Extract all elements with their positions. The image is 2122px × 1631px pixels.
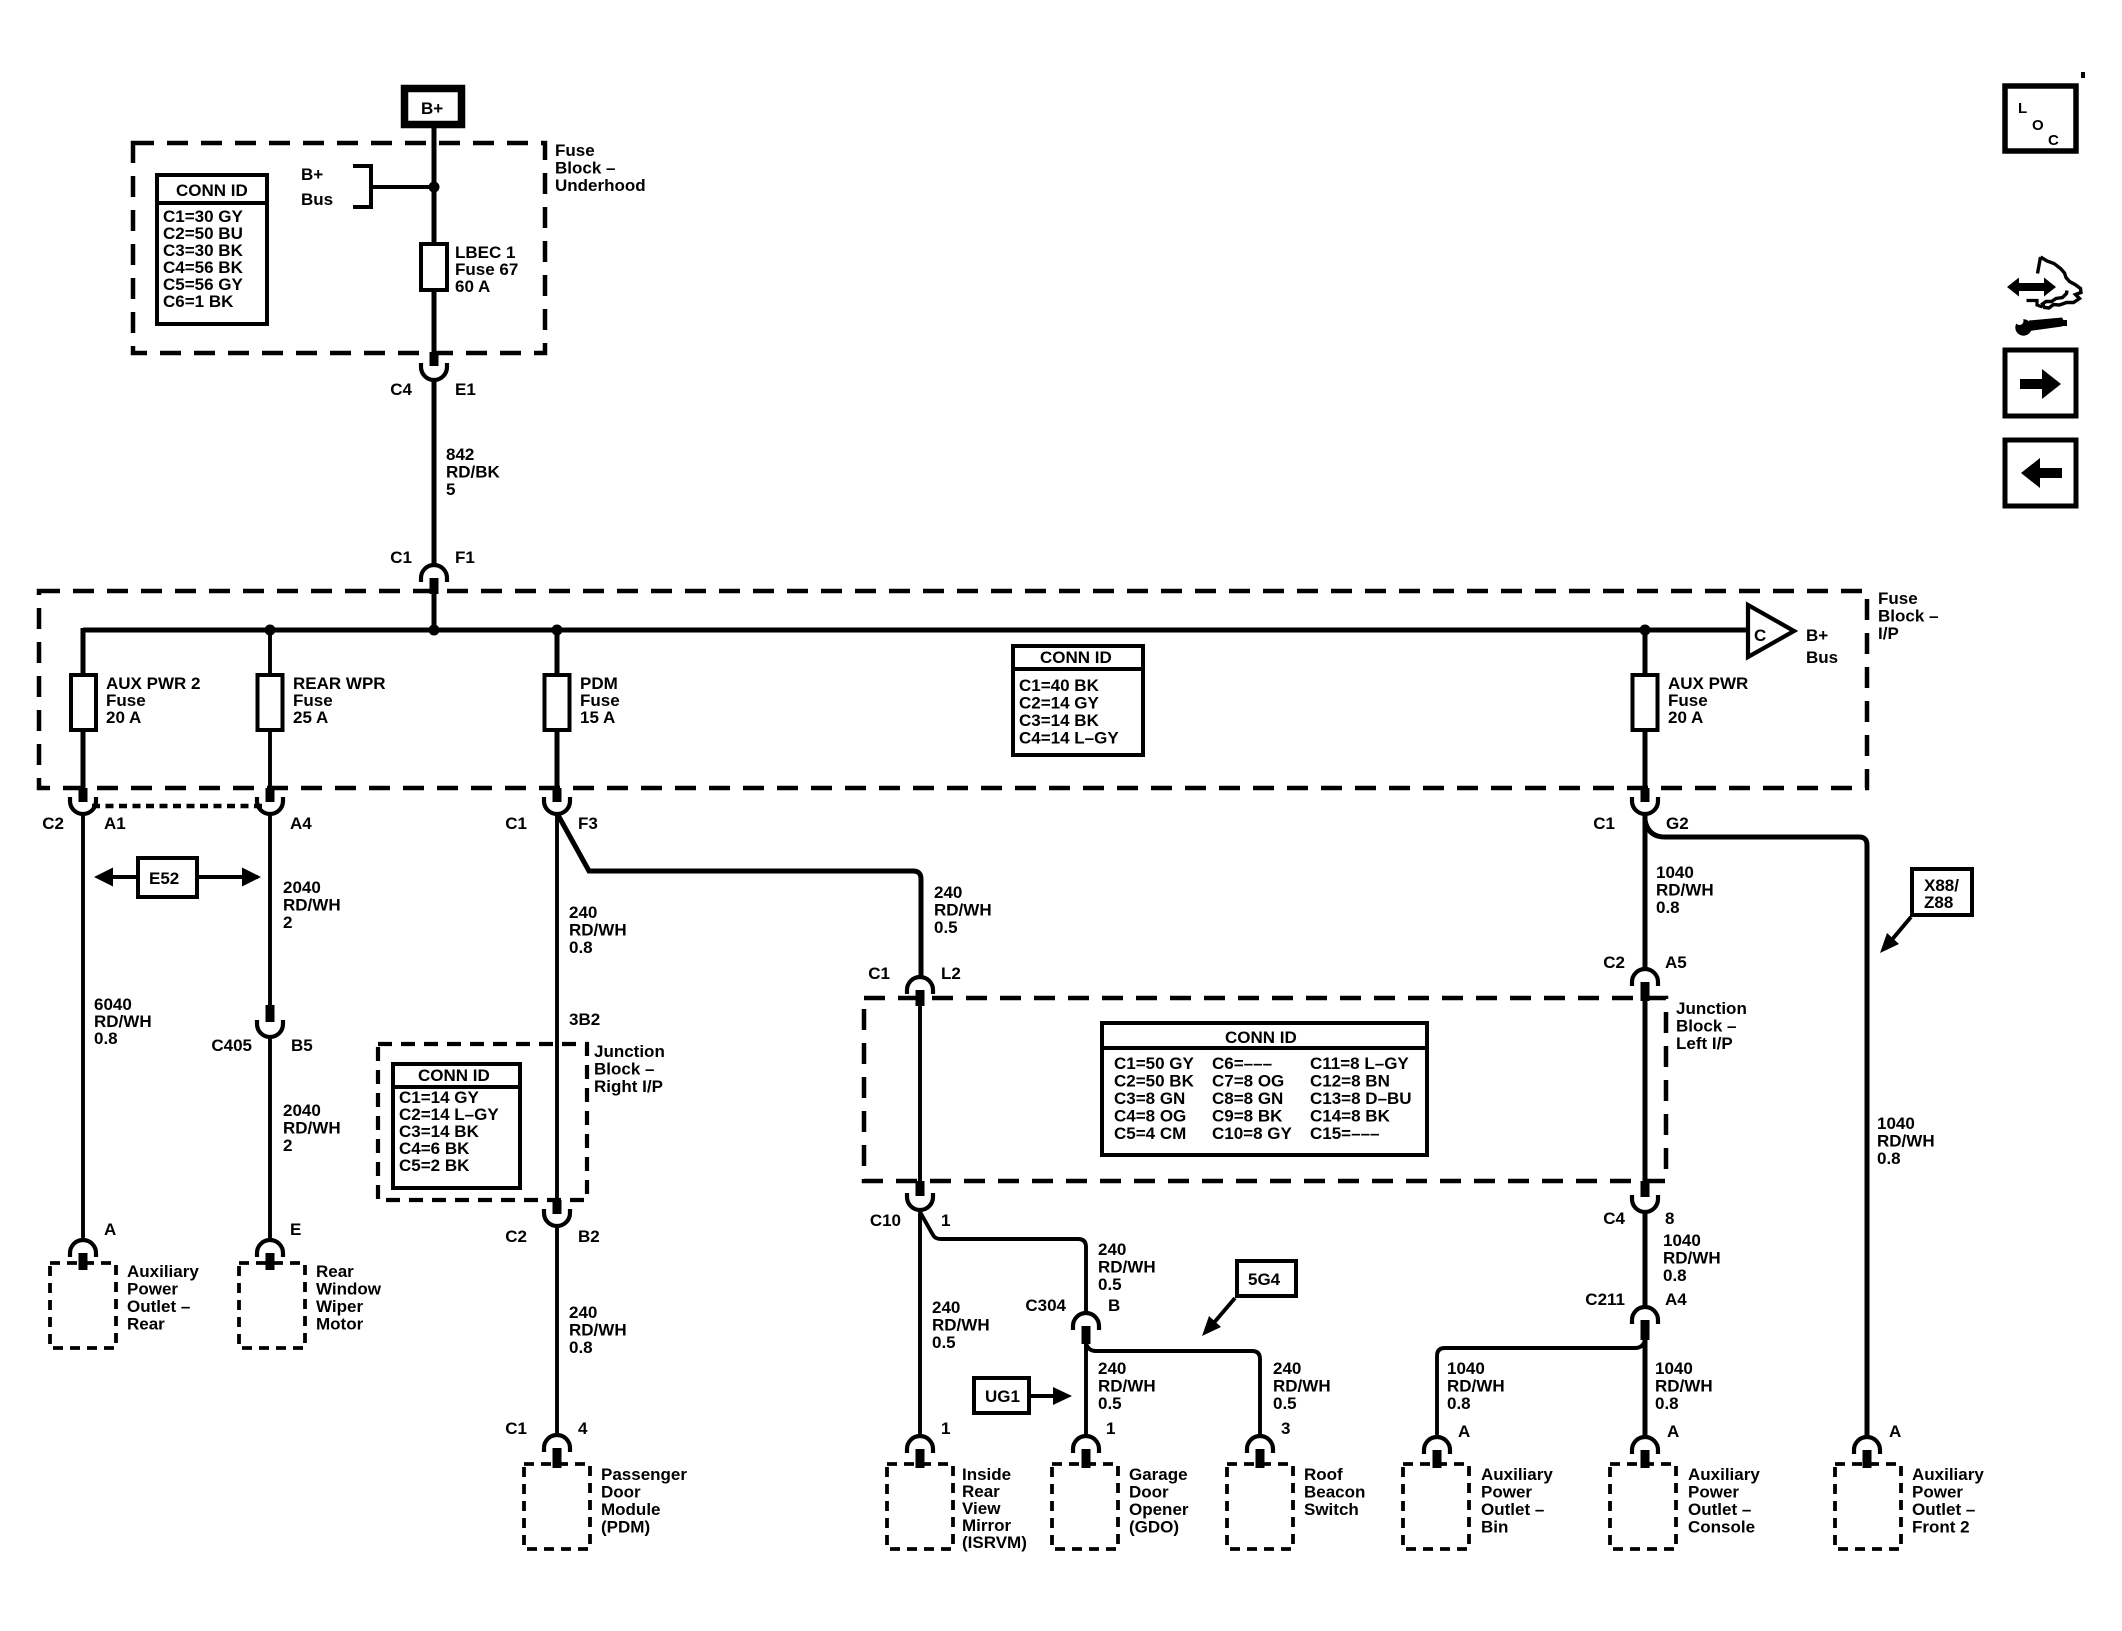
connector A (Console outlet) xyxy=(1632,1422,1679,1468)
wire 240 RD/WH 0.5 (to ISRVM) xyxy=(918,1210,922,1436)
svg-text:I/P: I/P xyxy=(1878,624,1899,643)
svg-text:0.8: 0.8 xyxy=(569,1338,593,1357)
svg-text:0.5: 0.5 xyxy=(1273,1394,1297,1413)
svg-text:F1: F1 xyxy=(455,548,475,567)
svg-text:Door: Door xyxy=(601,1483,641,1502)
component Garage Door Opener (GDO) xyxy=(1052,1464,1189,1549)
connector C1/F3 xyxy=(505,788,598,833)
svg-text:0.8: 0.8 xyxy=(94,1029,118,1048)
node C B+ Bus arrow xyxy=(1748,605,1838,667)
connector A (Front 2 outlet) xyxy=(1854,1422,1901,1468)
svg-text:RD/WH: RD/WH xyxy=(1098,1258,1156,1277)
CONN ID table (underhood) xyxy=(157,175,267,324)
svg-text:C15=–––: C15=––– xyxy=(1310,1124,1379,1143)
svg-text:CONN ID: CONN ID xyxy=(176,181,248,200)
svg-text:E1: E1 xyxy=(455,380,476,399)
svg-text:RD/WH: RD/WH xyxy=(1877,1132,1935,1151)
svg-text:Bin: Bin xyxy=(1481,1518,1508,1537)
connector C2/B2 xyxy=(505,1200,599,1246)
svg-text:240: 240 xyxy=(1273,1359,1301,1378)
svg-text:L: L xyxy=(2018,100,2027,117)
svg-text:C: C xyxy=(2048,132,2059,149)
svg-text:C10=8 GY: C10=8 GY xyxy=(1212,1124,1293,1143)
svg-text:Rear: Rear xyxy=(316,1262,354,1281)
svg-text:RD/WH: RD/WH xyxy=(1098,1377,1156,1396)
connector C304/B xyxy=(1025,1296,1120,1344)
icon arrow left box xyxy=(2005,440,2076,506)
svg-text:Front 2: Front 2 xyxy=(1912,1518,1970,1537)
svg-text:Door: Door xyxy=(1129,1483,1169,1502)
svg-text:Passenger: Passenger xyxy=(601,1465,687,1484)
svg-text:0.8: 0.8 xyxy=(1663,1266,1687,1285)
svg-text:(PDM): (PDM) xyxy=(601,1518,650,1537)
svg-text:Auxiliary: Auxiliary xyxy=(1481,1465,1553,1484)
connector C1/4 (PDM) xyxy=(505,1419,588,1468)
svg-text:(ISRVM): (ISRVM) xyxy=(962,1533,1027,1552)
svg-text:2: 2 xyxy=(283,1136,292,1155)
component Passenger Door Module (PDM) xyxy=(524,1464,687,1549)
connector C4/E1 xyxy=(390,352,476,399)
wire B+ bus (horizontal) xyxy=(83,628,1748,633)
svg-text:C1: C1 xyxy=(868,964,890,983)
connector 1 (GDO) xyxy=(1073,1419,1115,1468)
svg-text:C2: C2 xyxy=(42,814,64,833)
svg-text:240: 240 xyxy=(932,1298,960,1317)
svg-text:Motor: Motor xyxy=(316,1315,364,1334)
svg-text:Console: Console xyxy=(1688,1518,1755,1537)
svg-text:4: 4 xyxy=(578,1419,588,1438)
svg-text:0.5: 0.5 xyxy=(1098,1394,1122,1413)
svg-text:Opener: Opener xyxy=(1129,1500,1189,1519)
svg-text:C1=40 BK: C1=40 BK xyxy=(1019,676,1100,695)
svg-text:RD/BK: RD/BK xyxy=(446,463,501,482)
svg-text:8: 8 xyxy=(1665,1209,1674,1228)
wire B+ to fuse block underhood xyxy=(432,128,437,354)
svg-text:15 A: 15 A xyxy=(580,708,615,727)
connector C2/A1 xyxy=(42,788,125,833)
svg-text:Left I/P: Left I/P xyxy=(1676,1034,1733,1053)
component Auxiliary Power Outlet Front 2 xyxy=(1835,1464,1984,1549)
svg-text:A: A xyxy=(1458,1422,1470,1441)
wire 2040 RD/WH 2 (upper) xyxy=(268,813,272,1006)
svg-text:C405: C405 xyxy=(211,1036,252,1055)
svg-text:Outlet –: Outlet – xyxy=(127,1297,190,1316)
svg-text:Switch: Switch xyxy=(1304,1500,1359,1519)
svg-text:RD/WH: RD/WH xyxy=(934,901,992,920)
svg-text:0.8: 0.8 xyxy=(569,938,593,957)
svg-text:240: 240 xyxy=(569,903,597,922)
wire 6040 RD/WH 0.8 xyxy=(81,813,85,1241)
svg-text:Outlet –: Outlet – xyxy=(1481,1500,1544,1519)
svg-text:C1: C1 xyxy=(505,1419,527,1438)
label Junction Block Left I/P xyxy=(1676,999,1747,1053)
wire AUX PWR drop xyxy=(1643,630,1648,788)
svg-text:C3=14 BK: C3=14 BK xyxy=(1019,711,1100,730)
svg-text:20 A: 20 A xyxy=(106,708,141,727)
connector C405/B5 xyxy=(211,1005,312,1055)
fuse AUX PWR 20 A xyxy=(1633,674,1749,730)
wire 842 RD/BK 5 xyxy=(432,380,437,566)
svg-text:5: 5 xyxy=(446,480,455,499)
svg-text:RD/WH: RD/WH xyxy=(1663,1249,1721,1268)
wire branch C10 to C304 (240 RD/WH 0.5) xyxy=(920,1212,1086,1314)
wire 1040 RD/WH 0.8 (G2 to A5) xyxy=(1643,813,1648,970)
svg-text:0.5: 0.5 xyxy=(932,1333,956,1352)
wire PDM drop xyxy=(555,630,560,788)
connector C211/A4 xyxy=(1585,1290,1687,1340)
icon LOC box xyxy=(2005,72,2085,151)
label Fuse Block Underhood xyxy=(555,141,646,195)
svg-text:RD/WH: RD/WH xyxy=(1273,1377,1331,1396)
svg-text:C14=8 BK: C14=8 BK xyxy=(1310,1107,1391,1126)
svg-text:Fuse: Fuse xyxy=(555,141,595,160)
svg-text:C4=14 L–GY: C4=14 L–GY xyxy=(1019,729,1119,748)
svg-text:C1: C1 xyxy=(390,548,412,567)
label Junction Block Right I/P xyxy=(594,1042,665,1096)
svg-text:A4: A4 xyxy=(290,814,312,833)
wire inside middle junction block xyxy=(918,1005,922,1181)
svg-text:C1: C1 xyxy=(1593,814,1615,833)
svg-text:Auxiliary: Auxiliary xyxy=(127,1262,199,1281)
svg-text:Block –: Block – xyxy=(594,1060,654,1079)
svg-text:RD/WH: RD/WH xyxy=(283,1119,341,1138)
wire 240 RD/WH 0.8 (to PDM) xyxy=(555,1226,559,1436)
svg-text:C1=50 GY: C1=50 GY xyxy=(1114,1054,1195,1073)
component Auxiliary Power Outlet Rear xyxy=(50,1262,199,1348)
svg-text:C9=8 BK: C9=8 BK xyxy=(1212,1107,1283,1126)
svg-text:Bus: Bus xyxy=(301,190,333,209)
svg-text:O: O xyxy=(2032,117,2044,134)
node junction dot at B+ feed xyxy=(429,625,440,636)
svg-text:C5=2 BK: C5=2 BK xyxy=(399,1156,470,1175)
svg-text:Power: Power xyxy=(127,1280,178,1299)
wire branch C304 to Roof Beacon (240 RD/WH 0.5) xyxy=(1086,1343,1260,1436)
svg-text:Auxiliary: Auxiliary xyxy=(1912,1465,1984,1484)
connector A4 xyxy=(257,788,312,833)
svg-text:Junction: Junction xyxy=(1676,999,1747,1018)
svg-text:0.5: 0.5 xyxy=(934,918,958,937)
svg-text:240: 240 xyxy=(1098,1240,1126,1259)
fuse block I/P dashed box xyxy=(39,591,1867,788)
svg-text:C11=8 L–GY: C11=8 L–GY xyxy=(1310,1054,1409,1073)
wire inside junction block left I/P xyxy=(1643,1000,1648,1181)
svg-text:1: 1 xyxy=(941,1419,950,1438)
svg-text:60 A: 60 A xyxy=(455,277,490,296)
svg-text:RD/WH: RD/WH xyxy=(1656,881,1714,900)
fuse block underhood dashed box xyxy=(133,143,545,353)
svg-text:1: 1 xyxy=(941,1211,950,1230)
wire 2040 RD/WH 2 (lower) xyxy=(268,1037,272,1241)
svg-text:0.5: 0.5 xyxy=(1098,1275,1122,1294)
junction block Right I/P dashed box xyxy=(378,1044,587,1200)
svg-text:E: E xyxy=(290,1220,301,1239)
wire dotted connector-face line A1 to A4 xyxy=(92,804,262,809)
svg-text:RD/WH: RD/WH xyxy=(932,1316,990,1335)
svg-text:B: B xyxy=(1108,1296,1120,1315)
svg-text:RD/WH: RD/WH xyxy=(1655,1377,1713,1396)
svg-text:CONN ID: CONN ID xyxy=(1040,648,1112,667)
svg-text:C6=–––: C6=––– xyxy=(1212,1054,1272,1073)
svg-text:Roof: Roof xyxy=(1304,1465,1343,1484)
svg-text:25 A: 25 A xyxy=(293,708,328,727)
svg-text:3B2: 3B2 xyxy=(569,1010,600,1029)
wire AUX PWR 2 drop xyxy=(81,628,86,788)
svg-text:1: 1 xyxy=(1106,1419,1115,1438)
fuse AUX PWR 2 20 A xyxy=(71,674,200,730)
svg-text:C13=8 D–BU: C13=8 D–BU xyxy=(1310,1089,1412,1108)
power symbol B+ xyxy=(405,89,462,125)
wire 240 RD/WH 0.8 (PDM vertical) xyxy=(555,813,559,1200)
CONN ID table (fuse block I/P) xyxy=(1013,646,1143,755)
svg-text:A4: A4 xyxy=(1665,1290,1687,1309)
svg-text:C5=4 CM: C5=4 CM xyxy=(1114,1124,1186,1143)
svg-text:Beacon: Beacon xyxy=(1304,1483,1365,1502)
svg-text:Junction: Junction xyxy=(594,1042,665,1061)
svg-text:0.8: 0.8 xyxy=(1655,1394,1679,1413)
fuse LBEC 1 Fuse 67 60 A xyxy=(421,243,518,296)
B+ Bus tap bracket xyxy=(301,165,434,209)
connector C2/A5 xyxy=(1603,953,1686,1001)
svg-text:B2: B2 xyxy=(578,1227,600,1246)
svg-text:B+: B+ xyxy=(301,165,323,184)
component Auxiliary Power Outlet Bin xyxy=(1403,1464,1553,1549)
svg-text:C: C xyxy=(1754,626,1766,645)
wire 1040 RD/WH 0.8 (Front 2 label) xyxy=(1877,1114,1935,1168)
connector E (wiper motor) xyxy=(257,1220,301,1270)
component Roof Beacon Switch xyxy=(1227,1464,1365,1549)
grid reference UG1 with arrow xyxy=(974,1378,1072,1413)
node junction dot at REAR WPR xyxy=(265,625,276,636)
connector C4/8 xyxy=(1603,1181,1674,1228)
svg-text:RD/WH: RD/WH xyxy=(283,896,341,915)
svg-text:B+: B+ xyxy=(1806,626,1828,645)
svg-text:2040: 2040 xyxy=(283,878,321,897)
svg-text:A5: A5 xyxy=(1665,953,1687,972)
svg-text:C2: C2 xyxy=(1603,953,1625,972)
svg-text:C8=8 GN: C8=8 GN xyxy=(1212,1089,1283,1108)
icon arrow right box xyxy=(2005,350,2076,416)
svg-text:RD/WH: RD/WH xyxy=(569,921,627,940)
svg-text:RD/WH: RD/WH xyxy=(569,1321,627,1340)
svg-text:Block –: Block – xyxy=(555,159,615,178)
svg-text:A: A xyxy=(1667,1422,1679,1441)
svg-text:Auxiliary: Auxiliary xyxy=(1688,1465,1760,1484)
svg-text:C7=8 OG: C7=8 OG xyxy=(1212,1072,1284,1091)
svg-text:Outlet –: Outlet – xyxy=(1688,1500,1751,1519)
node junction dot at PDM xyxy=(552,625,563,636)
svg-text:E52: E52 xyxy=(149,869,179,888)
svg-text:Wiper: Wiper xyxy=(316,1297,363,1316)
node junction dot at AUX PWR xyxy=(1640,625,1651,636)
svg-text:240: 240 xyxy=(934,883,962,902)
svg-text:Garage: Garage xyxy=(1129,1465,1188,1484)
svg-text:0.8: 0.8 xyxy=(1447,1394,1471,1413)
svg-text:Power: Power xyxy=(1688,1483,1739,1502)
grid reference E52 with arrows xyxy=(94,858,261,897)
svg-text:RD/WH: RD/WH xyxy=(1447,1377,1505,1396)
grid reference 5G4 with arrow xyxy=(1202,1261,1296,1336)
svg-text:(GDO): (GDO) xyxy=(1129,1518,1179,1537)
connector C1/G2 xyxy=(1593,788,1688,833)
component Rear Window Wiper Motor xyxy=(239,1262,382,1348)
svg-text:C4: C4 xyxy=(390,380,412,399)
svg-text:A1: A1 xyxy=(104,814,126,833)
svg-text:Right I/P: Right I/P xyxy=(594,1077,663,1096)
wire branch C211 to Bin outlet (1040 RD/WH 0.8) xyxy=(1437,1340,1645,1437)
svg-text:2040: 2040 xyxy=(283,1101,321,1120)
svg-text:Z88: Z88 xyxy=(1924,893,1953,912)
svg-text:C2=50 BK: C2=50 BK xyxy=(1114,1072,1195,1091)
svg-text:240: 240 xyxy=(1098,1359,1126,1378)
connector A (outlet rear) xyxy=(70,1220,116,1270)
label Fuse Block I/P xyxy=(1878,589,1938,643)
svg-text:C3=8 GN: C3=8 GN xyxy=(1114,1089,1185,1108)
svg-text:Bus: Bus xyxy=(1806,648,1838,667)
svg-text:0.8: 0.8 xyxy=(1656,898,1680,917)
svg-text:842: 842 xyxy=(446,445,474,464)
svg-text:C10: C10 xyxy=(870,1211,901,1230)
svg-text:1040: 1040 xyxy=(1447,1359,1485,1378)
svg-text:Block –: Block – xyxy=(1878,607,1938,626)
svg-text:Power: Power xyxy=(1912,1483,1963,1502)
connector C10/1 xyxy=(870,1181,951,1230)
svg-text:240: 240 xyxy=(569,1303,597,1322)
svg-text:Block –: Block – xyxy=(1676,1017,1736,1036)
svg-text:5G4: 5G4 xyxy=(1248,1270,1281,1289)
svg-text:1040: 1040 xyxy=(1663,1231,1701,1250)
svg-text:2: 2 xyxy=(283,913,292,932)
icon vehicle repair (double arrow, outline, wrench) xyxy=(2007,257,2081,336)
connector C1/F1 xyxy=(390,548,475,594)
connector A (Bin outlet) xyxy=(1424,1422,1470,1468)
svg-text:1040: 1040 xyxy=(1877,1114,1915,1133)
svg-text:Underhood: Underhood xyxy=(555,176,646,195)
wire branch G2 to Front 2 outlet xyxy=(1645,820,1867,1437)
svg-text:C304: C304 xyxy=(1025,1296,1066,1315)
svg-text:G2: G2 xyxy=(1666,814,1689,833)
svg-text:C4: C4 xyxy=(1603,1209,1625,1228)
wire branch F3 to C1/L2 (240 RD/WH 0.5) xyxy=(558,815,921,978)
svg-text:1040: 1040 xyxy=(1655,1359,1693,1378)
svg-text:C6=1 BK: C6=1 BK xyxy=(163,292,234,311)
svg-text:C1: C1 xyxy=(505,814,527,833)
fuse PDM 15 A xyxy=(545,674,620,730)
svg-text:Fuse: Fuse xyxy=(1878,589,1918,608)
grid reference X88/Z88 with arrow xyxy=(1880,869,1972,953)
svg-text:B+: B+ xyxy=(421,99,443,118)
svg-text:C2=14 GY: C2=14 GY xyxy=(1019,694,1100,713)
CONN ID table (junction block right I/P) xyxy=(393,1064,520,1188)
svg-text:C211: C211 xyxy=(1585,1290,1625,1309)
svg-text:Outlet –: Outlet – xyxy=(1912,1500,1975,1519)
svg-text:Rear: Rear xyxy=(127,1315,165,1334)
connector C1/L2 xyxy=(868,964,961,1006)
svg-text:Power: Power xyxy=(1481,1483,1532,1502)
svg-text:C12=8 BN: C12=8 BN xyxy=(1310,1072,1390,1091)
wire 240 RD/WH 0.5 (to GDO) xyxy=(1084,1343,1088,1436)
svg-text:C4=8 OG: C4=8 OG xyxy=(1114,1107,1186,1126)
svg-text:CONN ID: CONN ID xyxy=(418,1066,490,1085)
svg-text:Module: Module xyxy=(601,1500,661,1519)
wire REAR WPR drop xyxy=(268,630,272,788)
svg-text:UG1: UG1 xyxy=(985,1387,1020,1406)
node B+ bus junction dot xyxy=(429,182,440,193)
fuse REAR WPR 25 A xyxy=(258,674,386,730)
component Auxiliary Power Outlet Console xyxy=(1610,1464,1760,1549)
svg-text:L2: L2 xyxy=(941,964,961,983)
CONN ID table (middle junction block) xyxy=(1102,1023,1427,1155)
svg-text:CONN ID: CONN ID xyxy=(1225,1028,1297,1047)
wire into fuse block I/P xyxy=(432,593,437,632)
wire 1040 RD/WH 0.8 (C4 to C211) xyxy=(1643,1212,1648,1308)
svg-text:C2: C2 xyxy=(505,1227,527,1246)
svg-text:B5: B5 xyxy=(291,1036,313,1055)
svg-text:1040: 1040 xyxy=(1656,863,1694,882)
svg-text:3: 3 xyxy=(1281,1419,1290,1438)
svg-text:20 A: 20 A xyxy=(1668,708,1703,727)
component Inside Rear View Mirror (ISRVM) xyxy=(887,1464,1027,1552)
svg-text:A: A xyxy=(1889,1422,1901,1441)
svg-text:0.8: 0.8 xyxy=(1877,1149,1901,1168)
connector 1 (ISRVM) xyxy=(907,1419,950,1468)
svg-text:Window: Window xyxy=(316,1280,382,1299)
connector 3 (Roof Beacon Switch) xyxy=(1247,1419,1290,1468)
svg-text:F3: F3 xyxy=(578,814,598,833)
svg-text:A: A xyxy=(104,1220,116,1239)
wire 1040 RD/WH 0.8 (to Console outlet) xyxy=(1643,1340,1648,1437)
junction block (middle) dashed box xyxy=(864,998,1666,1181)
